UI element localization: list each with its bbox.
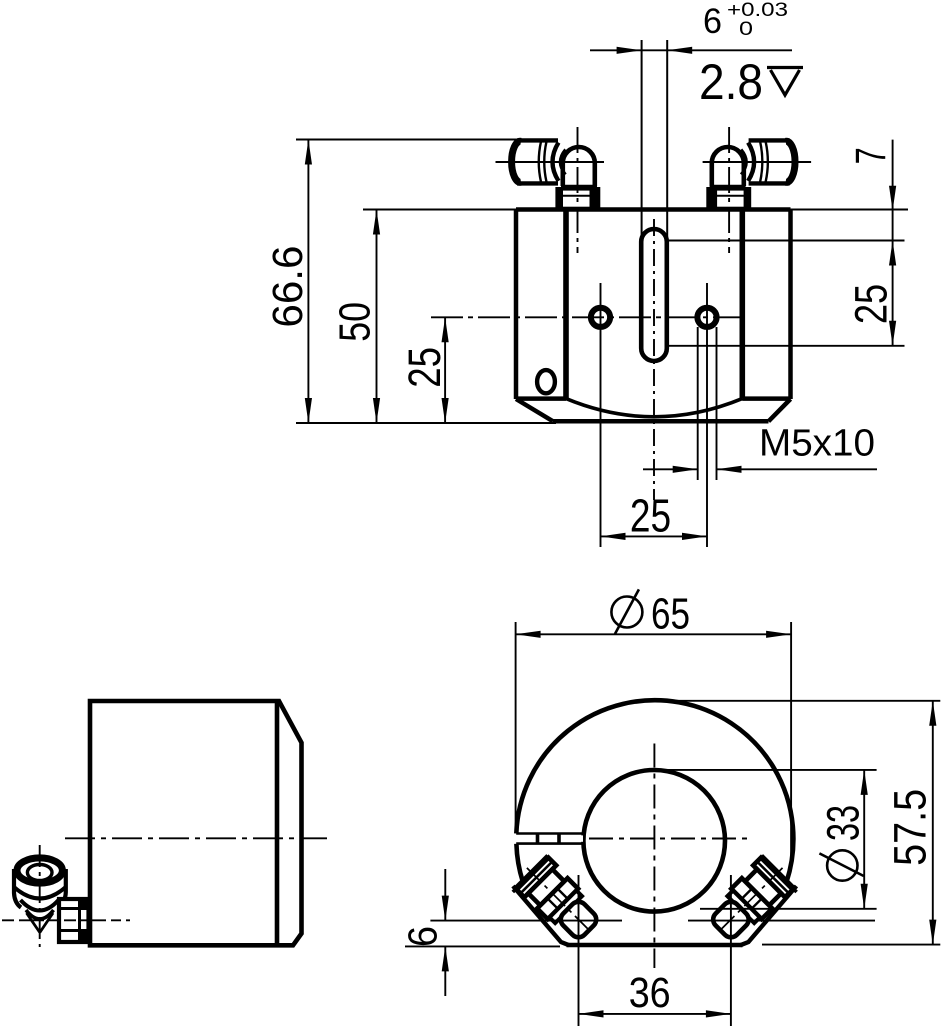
outer circle arc below slit (516, 844, 523, 882)
arrows 6 top (617, 47, 642, 54)
side fitting: end-cap ellipses (17, 858, 62, 883)
svg-text:50: 50 (331, 302, 380, 342)
base line (567, 943, 743, 948)
dia65 ext left (515, 622, 517, 832)
arrows 25 right (889, 241, 896, 266)
bore crosshair horizontal (589, 838, 750, 840)
bore inner circle (583, 770, 725, 912)
RIGHT_VIEW (430, 700, 875, 1026)
arrows 57.5 (929, 701, 936, 726)
bottom concave arc (566, 399, 742, 417)
mask slit gap (512, 835, 583, 841)
ref line 6 bottom (405, 945, 560, 947)
svg-text:+0.03: +0.03 (727, 0, 788, 21)
svg-text:6: 6 (399, 926, 445, 947)
small ellipse detail bottom-left of face (537, 370, 555, 393)
dim line 57.5 (932, 701, 934, 945)
svg-text:66.6: 66.6 (264, 246, 312, 328)
svg-text:65: 65 (651, 590, 690, 639)
dim line 66.6 (307, 140, 309, 424)
port cross left vertical (578, 875, 580, 1026)
port cross left horizontal (430, 920, 622, 922)
M5 thread projection lines (697, 327, 699, 480)
angled fitting bottom-right (mirror) (704, 851, 800, 947)
svg-text:7: 7 (848, 147, 895, 164)
flat stub left (513, 882, 523, 892)
silhouette edge left (513, 886, 569, 945)
pneumatic elbow fitting top-left (496, 127, 605, 253)
port cross right vertical (730, 875, 732, 1026)
dim line M5x10 (643, 468, 877, 470)
slot edge projection lines (641, 40, 643, 240)
svg-text:36: 36 (629, 969, 671, 1017)
dia33 ext bottom (700, 908, 877, 910)
arrow 7 (889, 186, 896, 211)
dim line 25 left (444, 317, 446, 423)
side fitting nut (59, 899, 89, 942)
dim line 50 (376, 210, 378, 424)
slit detail ticks (538, 834, 560, 844)
ref line part bottom (296, 422, 556, 424)
svg-text:2.8: 2.8 (699, 54, 763, 110)
arrows 25 left (442, 317, 449, 342)
dia65 ext right (790, 622, 792, 869)
ref line slot arc top right (669, 240, 905, 242)
arrows dia65 (516, 631, 541, 638)
arrows dia33 (861, 770, 868, 795)
dim line dia65 (516, 633, 792, 635)
svg-text:33: 33 (817, 805, 868, 841)
dim line dia33 (863, 770, 865, 909)
svg-text:0: 0 (739, 19, 753, 40)
dim line 6 top (590, 49, 792, 51)
arrows 66.6 (305, 140, 312, 165)
clamp body front outline (516, 210, 791, 422)
ref line block top right (791, 209, 909, 211)
svg-text:6: 6 (703, 1, 722, 41)
arrows 36 (579, 1010, 604, 1017)
ref line slot arc bottom right (669, 345, 905, 347)
angled fitting bottom-left (510, 851, 606, 947)
center slot (stadium) (641, 229, 667, 361)
port cross right horizontal (688, 920, 875, 922)
label dia65 symbol (611, 597, 642, 628)
svg-text:25: 25 (399, 347, 450, 388)
arrows 25 bottom (601, 533, 626, 540)
SIDE_VIEW (2, 701, 327, 947)
silhouette edge right (740, 886, 796, 945)
M5 hole left (591, 308, 610, 327)
side fitting body (14, 869, 21, 908)
M5 hole right (697, 308, 716, 327)
ref line block top left (363, 209, 516, 211)
right hole vertical centerline (706, 283, 708, 547)
pneumatic elbow fitting top-right (mirror) (703, 127, 812, 253)
holes horizontal centerline (431, 316, 744, 318)
FRONT_VIEW (431, 40, 811, 547)
bore crosshair vertical (653, 744, 655, 969)
slit upper line (516, 832, 584, 835)
slit lower line (516, 842, 584, 845)
dim line 6 bottom-left (444, 869, 446, 996)
clamp ring outer circle main arc (516, 700, 793, 882)
arrows 6 bottom-left (442, 896, 449, 921)
side view body outline (90, 701, 302, 945)
dim line 36 (579, 1013, 731, 1015)
ref line top of fittings (296, 139, 557, 141)
57.5 ext bottom (762, 944, 940, 946)
dia33 ext top (657, 769, 877, 771)
flat stub right (787, 882, 797, 892)
svg-text:25: 25 (846, 284, 897, 324)
side view main centerline (65, 837, 327, 839)
depth symbol (767, 68, 803, 96)
arrows 50 (373, 210, 380, 235)
slot vertical centerline (653, 219, 655, 500)
57.5 ext top (657, 700, 940, 702)
svg-text:25: 25 (630, 490, 671, 542)
arrows M5x10 (673, 466, 698, 473)
dim line 25 bottom (601, 535, 708, 537)
svg-text:57.5: 57.5 (884, 789, 935, 866)
DIMS (296, 50, 940, 1014)
label dia33 symbol (827, 850, 857, 880)
dim line 7 and 25 right (892, 140, 894, 346)
side fitting centerlines (39, 845, 41, 947)
left hole vertical line to bottom dim (600, 283, 602, 547)
svg-text:M5x10: M5x10 (759, 422, 875, 464)
